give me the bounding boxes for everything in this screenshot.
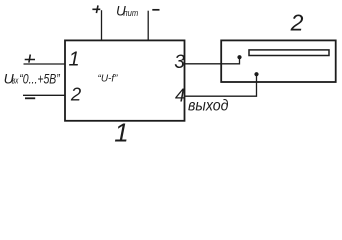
wire input minus to pin 2 — [23, 94, 65, 96]
block potentiometer (box 2) — [221, 40, 336, 82]
svg-text:выход: выход — [188, 98, 229, 115]
junction dot wiper — [237, 55, 241, 59]
svg-text:4: 4 — [175, 86, 185, 106]
svg-text:пит: пит — [123, 8, 138, 19]
wire pin 4 output — [185, 74, 257, 96]
wire pin 3 to wiper — [185, 57, 240, 64]
minus input terminal — [25, 97, 35, 99]
svg-text:“U-f”: “U-f” — [98, 74, 119, 85]
svg-text:1: 1 — [68, 49, 79, 71]
net label Upit — [116, 4, 138, 19]
junction dot output tap — [254, 72, 258, 76]
net label Uvx "0...+5V" — [4, 70, 61, 86]
svg-text:3: 3 — [174, 52, 185, 73]
plus supply terminal — [92, 5, 100, 13]
minus supply terminal — [152, 9, 159, 11]
wire supply plus lead — [101, 10, 103, 40]
svg-text:1: 1 — [114, 118, 128, 145]
svg-text:2: 2 — [290, 10, 304, 36]
resistor element R1 — [249, 50, 329, 56]
svg-text:вх: вх — [12, 76, 19, 87]
block U1 U-f converter (box 1) — [65, 40, 185, 120]
plus input terminal — [25, 55, 35, 63]
wire supply minus lead — [147, 11, 149, 41]
svg-text:2: 2 — [70, 84, 82, 105]
wire input plus to pin 1 — [24, 63, 66, 65]
svg-text:“0...+5В”: “0...+5В” — [19, 70, 60, 86]
